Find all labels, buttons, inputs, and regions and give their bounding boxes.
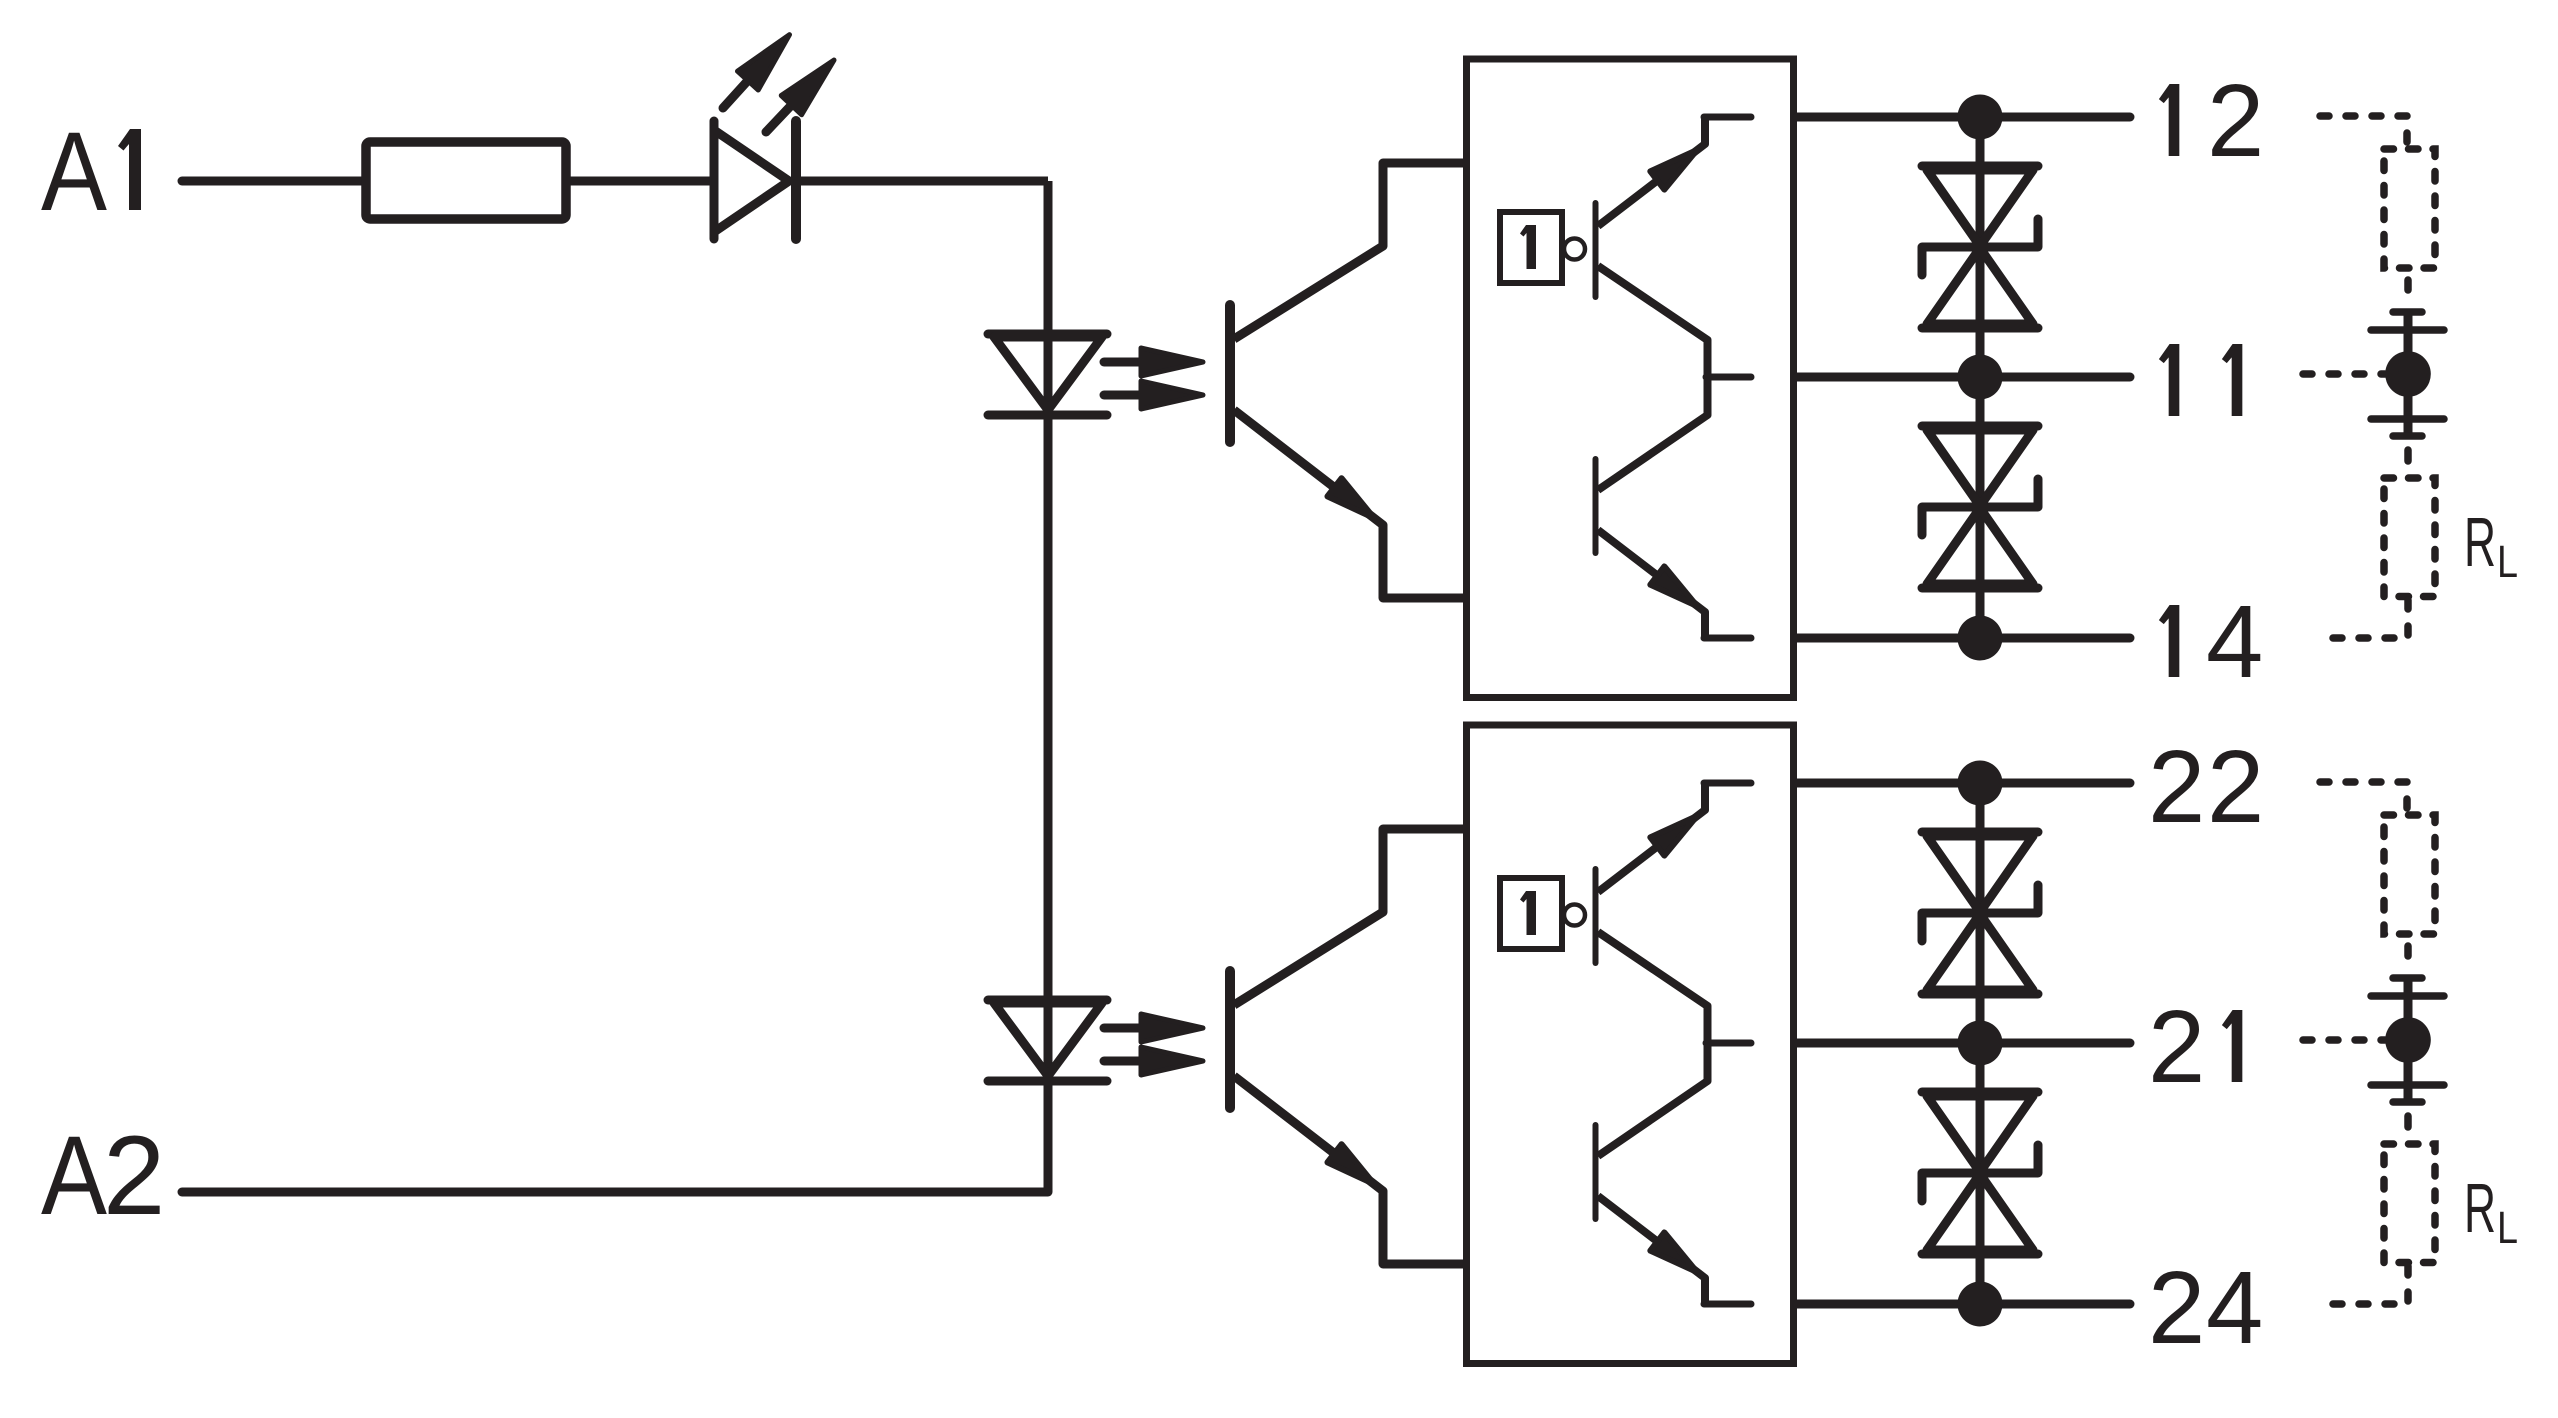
load circuit 1: battery cell lower: [2371, 393, 2444, 436]
LED: status indicator diode: [714, 121, 796, 239]
phototransistor 1 emitter wire to box: [1234, 410, 1468, 598]
load resistor RL channel 1 (dashed): [2384, 478, 2435, 597]
optocoupler 2 emitter LED: [988, 1000, 1107, 1081]
load circuit 2: dashed wire source to RL: [2404, 1116, 2412, 1127]
terminal label 11: [2159, 344, 2179, 416]
inverter bubble channel 1: [1564, 239, 1585, 260]
upper output transistor channel 1: [1596, 117, 1752, 297]
output wire 11: [1797, 373, 2130, 382]
load circuit 2: dashed wire RL to terminal 24: [2320, 1266, 2408, 1304]
load circuit 1: dashed wire to terminal 11: [2303, 370, 2385, 378]
terminal label A1: [41, 109, 141, 234]
load circuit 1: dashed series resistor: [2384, 149, 2435, 268]
TVS chain vertical wire channel 1: [1976, 117, 1985, 638]
svg-text:2: 2: [2148, 729, 2205, 844]
svg-text:A: A: [41, 1113, 107, 1238]
load circuit 1: battery cell upper: [2371, 312, 2444, 355]
svg-text:2: 2: [2207, 729, 2264, 844]
output wire 24: [1797, 1300, 2130, 1309]
load circuit 1: dashed wire source to RL: [2404, 450, 2412, 461]
optocoupler 2 phototransistor base bar: [1225, 971, 1235, 1108]
svg-text:L: L: [2497, 536, 2518, 587]
svg-text:L: L: [2497, 1202, 2518, 1253]
lower output transistor channel 1: [1596, 459, 1752, 638]
junction dot at terminal 14: [1958, 616, 2003, 661]
junction dot at terminal 12: [1958, 95, 2003, 140]
load resistor RL channel 2 (dashed): [2384, 1144, 2435, 1263]
junction dot at terminal 22: [1958, 761, 2003, 806]
junction dot at terminal 21: [1958, 1021, 2003, 1066]
load circuit 2: dashed wire to terminal 21: [2303, 1036, 2385, 1044]
junction dot at terminal 24: [1958, 1282, 2003, 1327]
wire: LED to corner: [800, 177, 1048, 186]
optocoupler 2 light coupling arrows: [1104, 1014, 1203, 1075]
load circuit 2: dashed series resistor: [2384, 815, 2435, 934]
logic gate "1" symbol channel 2: [1500, 878, 1562, 949]
output wire 12: [1797, 113, 2130, 122]
svg-text:2: 2: [2148, 989, 2205, 1104]
svg-text:4: 4: [2206, 1250, 2263, 1365]
wire: A2 horizontal: [182, 1188, 1048, 1197]
terminal label A2: [41, 1113, 165, 1238]
wire: vertical input bus: [1044, 181, 1053, 1192]
output wire 14: [1797, 634, 2130, 643]
inverter bubble channel 2: [1564, 905, 1585, 926]
load circuit 2: battery cell upper: [2371, 978, 2444, 1021]
bidirectional TVS suppressor diode 2.2: [1922, 1092, 2038, 1254]
load circuit 1: dashed wire from terminal 12: [2320, 116, 2407, 143]
load circuit 1: dashed wire resistor to source: [2404, 280, 2412, 290]
svg-text:R: R: [2464, 1169, 2496, 1247]
bidirectional TVS suppressor diode 2.1: [1922, 832, 2038, 994]
load circuit 2: dashed wire from terminal 22: [2320, 782, 2407, 809]
optocoupler 1 emitter LED: [988, 334, 1107, 415]
label RL channel 1: [2464, 503, 2518, 587]
label RL channel 2: [2464, 1169, 2518, 1253]
optocoupler 1 phototransistor base bar: [1225, 305, 1235, 442]
terminal label 14: [2159, 605, 2179, 677]
wire: A1 to resistor: [182, 177, 366, 186]
phototransistor 2 emitter arrowhead: [1327, 1144, 1381, 1193]
middle terminal link channel 2: [1598, 932, 1751, 1156]
TVS chain vertical wire channel 2: [1976, 783, 1985, 1304]
svg-text:2: 2: [2148, 1250, 2205, 1365]
svg-text:4: 4: [2206, 584, 2263, 699]
output stage box channel 1: [1467, 59, 1794, 698]
middle terminal link channel 1: [1598, 266, 1751, 490]
resistor: input series resistor: [366, 142, 566, 219]
upper output transistor channel 2: [1596, 783, 1752, 963]
load circuit 2: battery cell lower: [2371, 1059, 2444, 1102]
load circuit 2: dashed wire resistor to source: [2404, 946, 2412, 956]
phototransistor 1 collector wire to box: [1234, 163, 1468, 339]
load circuit 1: junction dot at terminal 11: [2385, 351, 2431, 397]
bidirectional TVS suppressor diode 1.1: [1922, 166, 2038, 328]
load circuit 1: dashed wire RL to terminal 14: [2320, 600, 2408, 638]
phototransistor 2 collector wire to box: [1234, 829, 1468, 1005]
junction dot at terminal 11: [1958, 355, 2003, 400]
svg-text:2: 2: [103, 1113, 165, 1238]
output wire 22: [1797, 779, 2130, 788]
output wire 21: [1797, 1039, 2130, 1048]
wire: resistor to LED: [566, 177, 712, 186]
optocoupler 1 light coupling arrows: [1104, 348, 1203, 409]
svg-text:A: A: [41, 109, 107, 234]
load circuit 2: junction dot at terminal 21: [2385, 1017, 2431, 1063]
output stage box channel 2: [1467, 725, 1794, 1364]
phototransistor 2 emitter wire to box: [1234, 1076, 1468, 1264]
logic gate "1" symbol channel 1: [1500, 212, 1562, 283]
LED indicator light emission arrows: [713, 25, 845, 141]
phototransistor 1 emitter arrowhead: [1327, 478, 1381, 527]
lower output transistor channel 2: [1596, 1125, 1752, 1304]
bidirectional TVS suppressor diode 1.2: [1922, 426, 2038, 588]
svg-text:R: R: [2464, 503, 2496, 581]
terminal label 12: [2159, 84, 2179, 156]
svg-text:2: 2: [2207, 63, 2264, 178]
